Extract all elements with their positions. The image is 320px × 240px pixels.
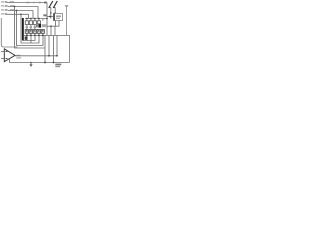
label C5 text [42,24,47,27]
wire VR2 drop [54,8,56,14]
resistor R9 box [25,30,28,34]
capacitor C5 dark body [38,24,41,28]
wire box stubs top [27,19,43,21]
net label 0V line2 [55,66,60,67]
label under R7 [34,26,36,28]
resistor R5 box [25,21,28,25]
potentiometer VR2 slash [54,1,58,8]
junction dot mid rail b [30,35,32,37]
wire op-amp feedback stub [9,59,11,62]
wire bundle v3 [21,14,39,43]
junction dot mid rail d [38,35,40,37]
junction dot bottom bus b [44,62,46,64]
mid bottom bus [15,55,57,57]
wire bar foot [23,35,35,40]
junction dot mid bus a [48,55,50,57]
VR2 wiper tip [55,12,56,13]
ground arrow [30,63,32,65]
capacitor C5 left mark [36,24,38,27]
wire drop b [48,35,50,55]
junction dot relay feed [49,16,51,18]
wire row1 [7,2,47,4]
op-amp U1 [4,49,15,62]
relay bottom rail [47,25,59,27]
wire VR1 drop [50,8,52,19]
wire staircase drop row4 [32,11,34,19]
mid rail [24,35,70,62]
diode D1 dark body [25,37,28,40]
net label 0V line1 [55,64,61,66]
wire rail stub a [27,35,31,43]
wire op-amp input bottom [1,58,4,60]
wire row4 [7,13,29,15]
wire relay feed [47,16,54,18]
wire relay pins down [56,21,60,27]
wire stub above rail b [54,26,56,35]
wire stub above rail a [50,26,52,35]
resistor R11 box [33,30,36,34]
wire far right vertical [66,7,68,36]
resistor R10 box [29,30,32,34]
relay K1 label [56,15,61,17]
top rail [25,18,47,20]
node IN4 label [1,13,4,14]
far right top tick [65,5,68,6]
junction dot mid bus b [56,55,58,57]
wire staircase drop row3 [37,7,39,19]
resistor R8 box [37,21,40,24]
junction dot mid rail a [26,35,28,37]
wire drop a [44,35,46,62]
junction dot row4 bundle [20,13,22,15]
wire drop d [56,35,58,55]
wire op-amp input top [1,51,4,53]
potentiometer VR1 slash [49,1,53,8]
wire row2 [8,6,38,8]
wire left edge vertical [1,18,17,47]
node IN3 label [1,9,4,10]
junction dot bottom bus c [53,62,55,64]
VR1 wiper tip [50,12,51,13]
wire bundle v2 [17,11,44,46]
junction dot mid rail c [34,35,36,37]
resistor R7 box [33,21,36,25]
op-amp U1 label line1 [16,55,20,56]
wire staircase drop row1 [46,3,48,36]
node IN2 label [1,5,4,6]
junction dot row2 bundle [14,6,16,8]
wire staircase drop row4b [28,14,30,18]
relay K1 dark edge [54,14,55,21]
wire bundle v1 [15,7,46,49]
node IN1 label [1,1,4,2]
wire drop c [53,35,55,62]
op-amp minus mark [6,58,8,60]
thick dark bus bar [22,18,24,41]
resistor R6 box [29,21,32,25]
wire row3 [8,10,33,12]
junction dot rail e [46,18,48,20]
relay K1 body [54,14,63,21]
junction dot bottom bus a [30,62,32,64]
resistor R13 box [41,30,44,34]
junction dot rail d [38,18,40,20]
junction dot relay rail [50,25,52,27]
label under R6 [30,26,32,28]
junction dot rail c [34,18,36,20]
junction dot rail a [26,18,28,20]
resistor R12 box [37,30,40,34]
junction dot mid rail e [42,35,44,37]
tick marks row1 [27,2,30,3]
wire box stubs bottom [27,25,43,36]
op-amp plus mark [6,51,8,53]
label under R5 [26,26,28,28]
op-amp U1 label line2 [16,57,21,58]
bottom bus [10,62,70,64]
junction dot row3 bundle [16,10,18,12]
junction dot rail b [30,18,32,20]
label near drop [43,14,46,16]
